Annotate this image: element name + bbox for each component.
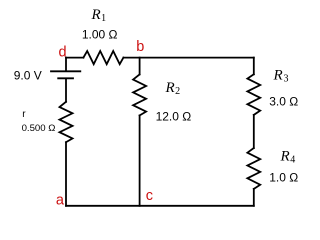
svg-text:R2: R2 [165,80,181,97]
wire R1 to top-right corner [123,57,253,59]
battery positive plate [51,70,80,72]
svg-text:R4: R4 [280,148,296,165]
svg-text:b: b [136,39,144,55]
wire r to node a [65,142,67,206]
svg-text:c: c [146,188,153,204]
svg-text:3.0 Ω: 3.0 Ω [269,95,298,109]
svg-text:R3: R3 [273,67,289,84]
wire top-right corner to R3 [253,58,255,75]
svg-text:0.500 Ω: 0.500 Ω [22,123,56,134]
battery negative plate [58,77,73,79]
svg-text:r: r [22,109,26,120]
wire R3 to R4 [253,115,255,148]
resistor r [60,102,73,142]
wire R2 to node c [139,115,141,205]
svg-text:1.00 Ω: 1.00 Ω [82,28,118,42]
wire battery to r [65,79,67,102]
svg-text:d: d [59,44,67,60]
svg-text:12.0 Ω: 12.0 Ω [156,110,192,124]
svg-text:R1: R1 [91,7,107,24]
svg-text:a: a [56,193,65,209]
resistor R4 [247,148,260,189]
bottom wire a to c to right corner [66,205,254,207]
resistor R3 [247,74,260,115]
resistor R1 [83,51,123,64]
wire d to battery [65,58,67,71]
wire R4 to bottom-right corner [253,189,255,206]
resistor R2 [133,74,146,115]
svg-text:1.0 Ω: 1.0 Ω [269,171,298,185]
wire b to R2 [139,58,141,75]
svg-text:9.0 V: 9.0 V [14,68,42,82]
wire top-left d to R1 [66,57,83,59]
